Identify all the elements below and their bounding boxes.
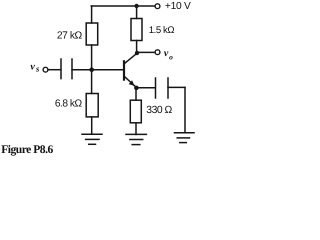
ground right [175,132,195,134]
transistor Q1 collector lead [124,53,137,63]
svg-text:+10 V: +10 V [165,1,191,12]
svg-text:27 kΩ: 27 kΩ [57,31,83,42]
resistor 330 Ohm [130,100,141,123]
svg-text:s: s [35,64,40,74]
node collector dot [135,51,139,55]
wire corner down to R 27k [91,6,93,23]
wire capacitor to right drop [168,86,185,88]
transistor Q1 emitter lead [124,76,136,87]
svg-text:v: v [30,62,35,73]
transistor Q1 emitter arrow [129,80,135,86]
wire R330 to ground [135,123,137,135]
transistor Q1 base bar [123,61,125,79]
capacitor C1 input plates [60,59,62,79]
wire 1.5k to collector node [136,41,138,54]
node dot top rail / 1.5k [134,4,138,8]
terminal +10 V [155,4,160,9]
resistor 1.5 kOhm [131,19,142,41]
wire emitter node to bypass capacitor [136,87,155,89]
wire capacitor to base [72,69,123,71]
svg-text:6.8 kΩ: 6.8 kΩ [55,98,83,109]
wire top rail [91,5,154,7]
wire 27k bottom to base node [91,45,93,94]
svg-text:o: o [169,52,173,61]
terminal vs [43,67,48,72]
wire collector node to vo terminal [137,51,155,53]
terminal vo [155,50,160,55]
wire vs to capacitor [48,69,61,71]
node emitter dot [134,86,139,91]
ground under R 6.8k [82,133,102,135]
resistor 6.8 kOhm [86,94,98,117]
ground under R330 [126,133,146,135]
node base dot [89,68,94,73]
svg-text:1.5 kΩ: 1.5 kΩ [149,25,175,36]
svg-text:330 Ω: 330 Ω [146,105,172,116]
wire emitter node down to R 330 [135,88,137,100]
wire drop to right ground [184,87,186,132]
resistor 27 kOhm [86,23,98,45]
svg-text:Figure P8.6: Figure P8.6 [1,143,53,156]
wire rail to R 1.5k [136,6,138,19]
capacitor C2 bypass plates [155,78,157,98]
wire R 6.8k to ground [91,117,93,134]
